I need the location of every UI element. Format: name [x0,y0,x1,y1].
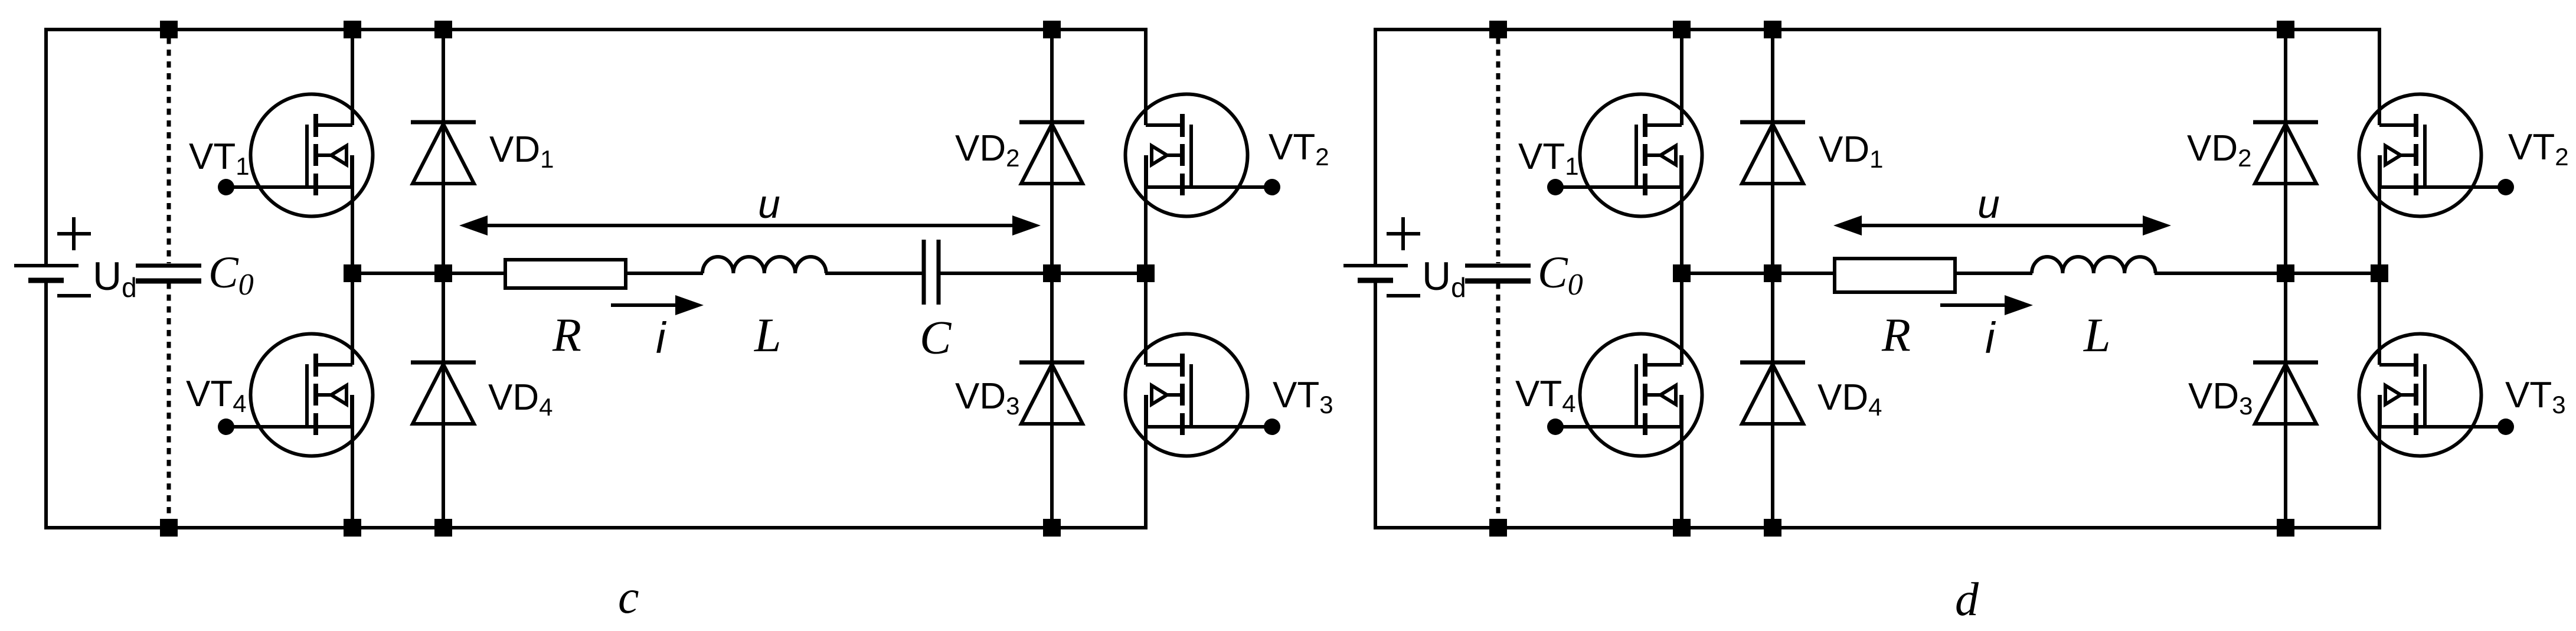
capacitor C0 plates (d) [1465,264,1531,268]
wire c-VT right branch lower [1144,395,1148,529]
svg-text:c: c [618,571,639,623]
node junction C0 top (d) [1489,21,1507,38]
wire c-VT branch lower [351,395,354,529]
plus sign (c) [57,232,91,236]
node junction VD3 bottom (d) [2277,519,2294,537]
wire c-VD left diode branch [442,28,445,529]
wire left side lower (c) [44,280,48,529]
transistor VT4 (c) (MOSFET) [218,334,373,456]
arrow i current direction (d) [1940,303,2008,307]
resistor R body (d) [1835,259,1955,292]
svg-text:i: i [1985,313,1996,362]
svg-text:d: d [1955,574,1979,626]
diode VD4 (c) [411,362,476,424]
transistor VT3 (c) (MOSFET) [1126,334,1281,456]
node junction VD2 top (c) [1043,21,1061,38]
diode VD3 (d) [2253,362,2318,424]
wire d-VD left diode branch [1771,28,1774,529]
wire c-VT right branch middle [1144,155,1148,365]
node junction mid left VD (d) [1764,264,1781,282]
wire left side upper (c) [44,28,48,266]
svg-text:u: u [1977,182,2000,227]
wire C to right node (c) [940,272,1146,275]
node junction VD1 top (c) [434,21,452,38]
node junction VD4 bottom (d) [1764,519,1781,537]
diode VD1 (c) [411,122,476,184]
capacitor C0 plates (c) [136,264,201,268]
node junction VT1 top (d) [1673,21,1691,38]
wire bottom rail (c) [44,526,1148,529]
wire bottom rail (d) [1374,526,2381,529]
wire d-VT branch middle [1680,155,1683,365]
node junction mid left VD (c) [434,264,452,282]
node junction mid right VT (c) [1137,264,1155,282]
node junction C0 bottom (c) [160,519,178,537]
wire d-VT right branch upper [2378,28,2381,125]
wire L to C (c) [825,272,923,275]
svg-text:L: L [754,308,782,362]
wire left side upper (d) [1374,28,1377,266]
diode VD2 (d) [2253,122,2318,184]
arrow i current direction (c) [611,303,679,307]
transistor VT1 (d) (MOSFET) [1547,94,1702,217]
wire d-VT-top branch upper [1680,28,1683,125]
diode VD2 (c) [1019,122,1084,184]
transistor VT4 (d) (MOSFET) [1547,334,1702,456]
DC source battery plates (c) [14,264,79,267]
minus sign (c) [57,294,91,297]
transistor VT3 (d) (MOSFET) [2359,334,2515,456]
svg-text:R: R [1881,309,1911,361]
svg-text:u: u [758,182,780,227]
diode VD1 (d) [1740,122,1805,184]
node junction mid right VD (d) [2277,264,2294,282]
wire d-VT branch lower [1680,395,1683,529]
wire top rail (c) [44,28,1148,31]
node junction VD4 bottom (c) [434,519,452,537]
node junction C0 top (c) [160,21,178,38]
arrow u voltage span (c) [484,224,1016,227]
diode VD4 (d) [1740,362,1805,424]
svg-text:C: C [920,312,952,364]
wire d-VD right diode branch [2284,28,2287,529]
resistor R body (c) [505,260,626,288]
wire R to L (d) [1957,272,2032,275]
wire d-VT right branch middle [2378,155,2381,365]
node junction mid left VT (c) [344,264,361,282]
node junction mid right VD (c) [1043,264,1061,282]
wire mid rail left segment (d) [1682,272,1835,275]
node junction VT4 bottom (c) [344,519,361,537]
inductor L (c) [702,257,826,273]
dashed wire C0 branch upper (d) [1496,38,1501,263]
arrow u voltage span (d) [1858,224,2146,227]
node junction mid right VT (d) [2371,264,2388,282]
wire mid rail left segment (c) [352,272,505,275]
svg-text:L: L [2083,308,2111,362]
capacitor C plates (c) [922,240,926,305]
node junction VD1 top (d) [1764,21,1781,38]
wire L to right node (d) [2155,272,2379,275]
dashed wire C0 branch upper (c) [167,38,171,263]
dashed wire C0 branch lower (c) [167,283,171,519]
wire c-VT branch middle [351,155,354,365]
wire d-VT right branch lower [2378,395,2381,529]
transistor VT1 (c) (MOSFET) [218,94,373,217]
wire c-VT right branch upper [1144,28,1148,125]
svg-text:R: R [552,309,581,361]
wire c-VD right diode branch [1050,28,1054,529]
wire left side lower (d) [1374,280,1377,529]
diode VD3 (c) [1019,362,1084,424]
transistor VT2 (c) (MOSFET) [1126,94,1281,217]
transistor VT2 (d) (MOSFET) [2359,94,2515,217]
wire R to L (c) [627,272,703,275]
node junction VT1 top (c) [344,21,361,38]
node junction VD2 top (d) [2277,21,2294,38]
inductor L (d) [2032,257,2156,273]
wire c-VT-top branch upper [351,28,354,125]
minus sign (d) [1387,294,1420,297]
wire top rail (d) [1374,28,2381,31]
plus sign (d) [1387,232,1420,236]
node junction C0 bottom (d) [1489,519,1507,537]
node junction VD3 bottom (c) [1043,519,1061,537]
node junction mid left VT (d) [1673,264,1691,282]
DC source battery plates (d) [1343,264,1408,267]
svg-text:i: i [656,313,667,362]
dashed wire C0 branch lower (d) [1496,283,1501,519]
node junction VT4 bottom (d) [1673,519,1691,537]
